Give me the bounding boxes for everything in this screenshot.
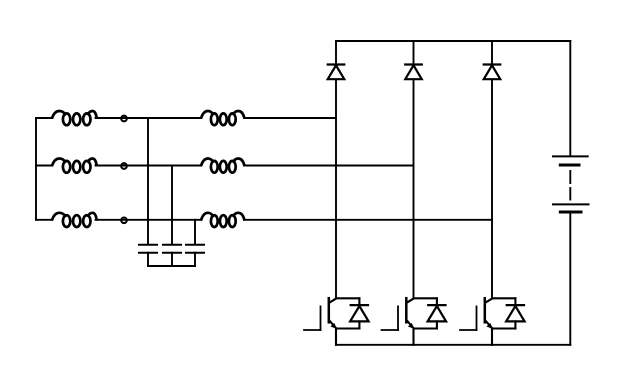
diode D2 [405,65,422,80]
battery cell 1 short plate [560,164,579,167]
inductor L1a [52,111,96,125]
battery cell 2 long plate [553,203,589,205]
IGBT Q2 with diode [382,298,447,345]
battery bottom lead [569,214,571,345]
leg 2 upper wire [413,41,415,64]
inductor L2a [52,159,96,173]
left input bus [35,118,37,220]
diode D1 [328,65,345,80]
capacitor tap wire B [171,166,173,244]
node C [121,218,127,224]
leg 1 upper wire [335,41,337,64]
capacitor common bus [148,265,195,267]
inductor L1b [201,111,244,125]
battery cell 2 short plate [560,211,581,214]
battery cell 1 long plate [553,155,588,157]
phase A row wires [36,117,52,119]
phase B row wires [36,165,52,167]
capacitor tap wire C [194,220,196,244]
battery top lead [569,41,571,155]
capacitor tap wire A [147,118,149,244]
phase C row wires [36,219,52,221]
IGBT Q1 with diode [304,298,369,345]
leg 3 upper wire [491,41,493,64]
capacitor C3 [186,245,204,266]
inductor L3b [201,213,244,227]
capacitor C2 [163,245,181,266]
DC bottom rail [336,344,570,346]
capacitor C1 [139,245,157,266]
IGBT Q3 with diode [460,298,525,345]
inductor L3a [52,213,96,227]
DC top rail [336,40,570,42]
node A [121,116,127,122]
inductor L2b [201,159,244,173]
diode D3 [484,65,501,80]
node B [121,163,127,169]
battery dashed middle [569,171,571,183]
